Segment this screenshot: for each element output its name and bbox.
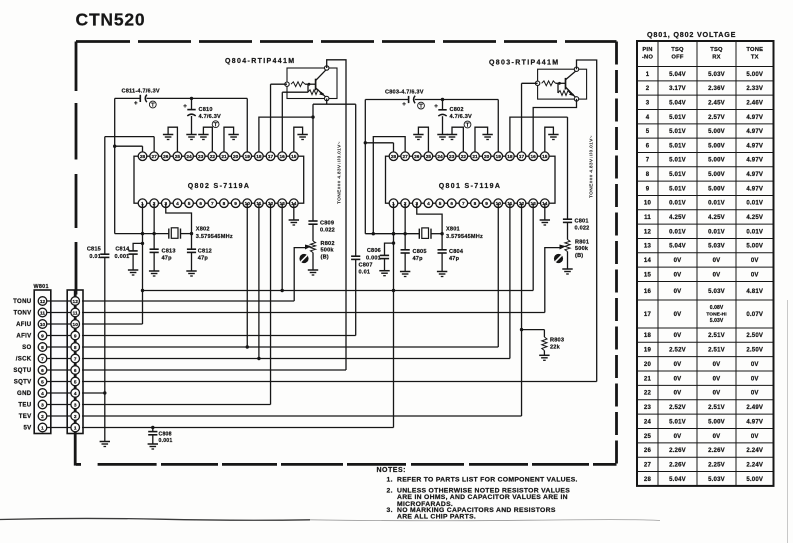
svg-text:0.022: 0.022 xyxy=(320,228,335,234)
wire: crystal net under Q801 xyxy=(365,232,444,235)
svg-text:+: + xyxy=(183,103,187,110)
svg-text:17: 17 xyxy=(268,154,274,160)
svg-text:4: 4 xyxy=(74,391,77,397)
svg-text:5.03V: 5.03V xyxy=(708,72,725,78)
svg-text:C806: C806 xyxy=(367,248,381,254)
svg-text:0V: 0V xyxy=(674,362,682,368)
svg-text:TX: TX xyxy=(751,55,759,61)
capacitor C804 47p on pin-3 net with ground xyxy=(417,203,464,276)
capacitor C813 47p on pin-2 column with ground xyxy=(149,203,176,276)
svg-text:5.03V: 5.03V xyxy=(708,244,725,250)
capacitor C809 0.022 xyxy=(308,104,335,233)
svg-text:9: 9 xyxy=(74,333,77,339)
svg-text:21: 21 xyxy=(644,376,652,382)
svg-text:3.: 3. xyxy=(387,507,393,514)
svg-text:10: 10 xyxy=(73,322,79,328)
svg-text:5.03V: 5.03V xyxy=(710,318,724,324)
svg-text:28: 28 xyxy=(644,477,652,483)
svg-text:AFIU: AFIU xyxy=(16,321,32,328)
svg-text:5.01V: 5.01V xyxy=(669,143,686,149)
svg-text:0V: 0V xyxy=(751,434,759,440)
wire: C815 net to pin 27 xyxy=(105,137,154,152)
svg-text:5.01V: 5.01V xyxy=(669,186,686,192)
wire: Q801 pin 11 column + /SCK row xyxy=(82,203,510,358)
wire: C803 net to pin 19 xyxy=(365,100,498,153)
svg-text:C805: C805 xyxy=(413,249,427,255)
svg-text:0.01V: 0.01V xyxy=(669,229,686,235)
ground (R802) xyxy=(308,270,318,275)
svg-text:Q801 S-7119A: Q801 S-7119A xyxy=(439,183,502,190)
svg-text:0V: 0V xyxy=(751,258,759,264)
svg-text:11: 11 xyxy=(644,215,651,221)
wire: TONU row 12 to R802 riser xyxy=(82,300,294,302)
svg-text:16: 16 xyxy=(280,154,286,160)
svg-text:5.01V: 5.01V xyxy=(669,158,686,164)
svg-text:9: 9 xyxy=(646,186,650,192)
IC U-Q801 S-7119A body xyxy=(386,156,556,203)
svg-text:2.50V: 2.50V xyxy=(746,348,763,354)
capacitor C810 4.7/6.3V (polarized) with ground xyxy=(183,97,221,140)
wire: GND row 4 to ground rail xyxy=(82,392,105,394)
wire: Q802 pin 1 column (Vdd) down to AFIU row xyxy=(141,203,144,324)
svg-text:TONE-HI: TONE-HI xyxy=(706,311,727,317)
svg-text:0V: 0V xyxy=(674,258,682,264)
svg-text:C801: C801 xyxy=(575,219,589,225)
svg-text:2.24V: 2.24V xyxy=(746,462,763,468)
crystal X801 3.579545MHz xyxy=(419,227,483,240)
svg-text:2.24V: 2.24V xyxy=(746,448,763,454)
svg-text:5.01V: 5.01V xyxy=(669,172,686,178)
wire: C803 riser to crystal line, jog to pin 28 xyxy=(364,100,394,234)
transistor Q804 RTIP441M (digital transistor block) xyxy=(225,58,337,101)
svg-text:C815: C815 xyxy=(87,247,101,253)
svg-text:5.04V: 5.04V xyxy=(669,244,686,250)
wire: Q802 pin 11 column to /SCK row xyxy=(257,203,260,360)
svg-text:0.01: 0.01 xyxy=(359,270,371,276)
connector W801 xyxy=(34,284,84,434)
svg-text:7: 7 xyxy=(41,356,44,362)
svg-text:6: 6 xyxy=(199,201,202,207)
svg-text:20: 20 xyxy=(233,154,239,160)
svg-text:25: 25 xyxy=(175,154,181,160)
wire: C811 riser to crystal line, jog to pin 28 xyxy=(113,98,143,233)
resistor R801 500k (B) potentiometer xyxy=(565,222,589,268)
transistor Q803 RTIP441M (digital transistor block) xyxy=(489,60,587,102)
svg-text:11: 11 xyxy=(40,310,45,316)
svg-text:0V: 0V xyxy=(713,272,721,278)
wire: Q801 pin 10 column + SO row xyxy=(82,203,498,347)
svg-text:AFIV: AFIV xyxy=(16,333,32,340)
wire+ground pin 15 Q801 xyxy=(545,127,559,152)
svg-text:27: 27 xyxy=(402,154,408,160)
svg-text:2.52V: 2.52V xyxy=(669,405,686,411)
svg-text:+: + xyxy=(134,100,138,107)
svg-text:4.97V: 4.97V xyxy=(746,186,763,192)
svg-text:4: 4 xyxy=(646,115,650,121)
svg-text:2.52V: 2.52V xyxy=(669,348,686,354)
svg-text:ARE ALL CHIP PARTS.: ARE ALL CHIP PARTS. xyxy=(397,514,476,521)
svg-text:15: 15 xyxy=(542,154,548,160)
svg-text:C803-4.7/6.3V: C803-4.7/6.3V xyxy=(385,90,424,96)
svg-text:TONE: TONE xyxy=(746,47,763,53)
svg-text:5V: 5V xyxy=(23,425,32,432)
svg-text:4.97V: 4.97V xyxy=(746,143,763,149)
wire+ground pin 21 Q801 xyxy=(475,127,493,152)
wire: TONV row 11 to R801 riser xyxy=(82,312,545,314)
svg-text:2.45V: 2.45V xyxy=(708,100,725,106)
svg-text:5.00V: 5.00V xyxy=(708,186,725,192)
svg-text:TONU: TONU xyxy=(13,298,32,305)
svg-text:PIN: PIN xyxy=(642,47,652,53)
svg-text:R803: R803 xyxy=(550,338,564,344)
ground (R801) xyxy=(562,268,572,270)
svg-text:26: 26 xyxy=(644,448,652,454)
svg-text:0V: 0V xyxy=(674,272,682,278)
svg-text:8: 8 xyxy=(41,345,44,351)
svg-text:47p: 47p xyxy=(162,256,173,262)
svg-text:6: 6 xyxy=(74,368,77,374)
svg-text:5: 5 xyxy=(646,129,650,135)
svg-text:22: 22 xyxy=(644,391,652,397)
capacitor C807 0.01 (series, on SQTU riser) xyxy=(351,256,373,275)
ground pin 14 Q801 xyxy=(540,203,550,225)
capacitor C802 4.7/6.3V (polarized) with ground xyxy=(434,98,472,140)
svg-text:SQTU: SQTU xyxy=(13,367,31,374)
svg-text:500k: 500k xyxy=(321,248,335,254)
voltage table Q801,Q802 xyxy=(637,30,774,486)
svg-text:0.01V: 0.01V xyxy=(746,229,763,235)
svg-text:0V: 0V xyxy=(751,362,759,368)
wire: C811 net to pin 19 xyxy=(115,98,248,152)
svg-text:(B): (B) xyxy=(321,255,329,261)
svg-text:C809: C809 xyxy=(320,221,334,227)
svg-text:47p: 47p xyxy=(413,256,424,262)
svg-text:1.: 1. xyxy=(387,476,393,483)
svg-text:8: 8 xyxy=(74,345,77,351)
wire+ground pin 15 xyxy=(294,127,308,152)
svg-text:7: 7 xyxy=(646,158,650,164)
test point T on C811 xyxy=(149,101,156,108)
svg-text:0V: 0V xyxy=(713,391,721,397)
svg-text:0.001: 0.001 xyxy=(366,256,381,262)
svg-text:1: 1 xyxy=(41,425,44,431)
svg-text:5: 5 xyxy=(188,201,191,207)
svg-text:Q803-RTIP441M: Q803-RTIP441M xyxy=(489,60,559,67)
svg-text:18: 18 xyxy=(507,154,513,160)
svg-text:C807: C807 xyxy=(359,263,373,269)
ground pin 14 Q802 xyxy=(289,203,299,225)
wire: C815 vertical rail down to ground / GND row xyxy=(103,137,106,442)
capacitor C814 0.001 with ground xyxy=(115,242,145,275)
svg-text:Q804-RTIP441M: Q804-RTIP441M xyxy=(225,58,295,65)
svg-text:2.51V: 2.51V xyxy=(708,333,725,339)
svg-text:24: 24 xyxy=(644,419,652,425)
svg-text:17: 17 xyxy=(644,312,652,318)
svg-text:27: 27 xyxy=(644,462,652,468)
svg-text:7: 7 xyxy=(211,201,214,207)
svg-text:TSQ: TSQ xyxy=(671,47,684,53)
svg-text:5.00V: 5.00V xyxy=(746,477,763,483)
svg-text:0.07V: 0.07V xyxy=(746,312,763,318)
svg-text:9: 9 xyxy=(234,201,237,207)
svg-text:20: 20 xyxy=(644,362,652,368)
svg-text:-NO: -NO xyxy=(642,55,654,61)
svg-text:21: 21 xyxy=(221,154,227,160)
R802 wiper arrow from TONU riser xyxy=(294,245,311,302)
test point T on C810 xyxy=(212,121,219,128)
svg-text:4.97V: 4.97V xyxy=(746,419,763,425)
svg-text:3.579545MHz: 3.579545MHz xyxy=(196,234,233,240)
svg-text:47p: 47p xyxy=(449,256,460,262)
svg-text:17: 17 xyxy=(519,154,525,160)
wire: Q804 collector to SQTU riser (row 6) xyxy=(327,60,346,370)
svg-text:14: 14 xyxy=(644,258,652,264)
resistor R802 500k (B) potentiometer xyxy=(310,224,334,269)
svg-text:2.49V: 2.49V xyxy=(746,405,763,411)
svg-text:5.00V: 5.00V xyxy=(708,129,725,135)
svg-text:5.00V: 5.00V xyxy=(746,72,763,78)
svg-text:0V: 0V xyxy=(751,376,759,382)
notes text block xyxy=(377,467,578,521)
svg-text:28: 28 xyxy=(140,154,146,160)
svg-text:3.579545MHz: 3.579545MHz xyxy=(446,234,483,240)
wire: Q801 pin 1 column (Vdd) down to 5V row xyxy=(392,203,395,427)
wire: Q802 pin 13 column to bus xyxy=(280,203,283,292)
svg-text:4.97V: 4.97V xyxy=(746,129,763,135)
svg-text:4.25V: 4.25V xyxy=(669,215,686,221)
svg-text:5: 5 xyxy=(41,379,44,385)
svg-text:10: 10 xyxy=(40,322,46,328)
svg-text:4: 4 xyxy=(427,201,430,207)
svg-text:TONE### 4.83V↓I/0.01V~: TONE### 4.83V↓I/0.01V~ xyxy=(589,135,595,198)
svg-text:2.57V: 2.57V xyxy=(708,115,725,121)
svg-text:CTN520: CTN520 xyxy=(76,10,146,30)
svg-text:0V: 0V xyxy=(713,376,721,382)
svg-text:26: 26 xyxy=(163,154,169,160)
capacitor C801 0.022 xyxy=(563,117,590,231)
IC Q802 top pins 28-15 xyxy=(138,152,298,161)
wire: Q802 pin 12 column to TEU row xyxy=(270,203,272,404)
wire: pin 18 to C801 xyxy=(510,117,568,152)
adjuster symbol (screwdriver) R802 xyxy=(299,254,308,263)
svg-text:0V: 0V xyxy=(751,272,759,278)
svg-text:4.97V: 4.97V xyxy=(746,158,763,164)
svg-text:5: 5 xyxy=(439,201,442,207)
svg-text:TSQ: TSQ xyxy=(710,47,723,53)
svg-text:11: 11 xyxy=(73,310,78,316)
svg-text:0.001: 0.001 xyxy=(159,438,173,444)
board outline dashed border xyxy=(76,40,130,43)
svg-text:28: 28 xyxy=(391,154,397,160)
svg-text:C814: C814 xyxy=(115,247,130,253)
svg-text:2.51V: 2.51V xyxy=(708,348,725,354)
svg-text:2.: 2. xyxy=(387,487,393,494)
svg-text:/SCK: /SCK xyxy=(16,356,32,363)
svg-text:2: 2 xyxy=(41,414,44,420)
svg-text:0V: 0V xyxy=(674,391,682,397)
svg-text:1: 1 xyxy=(646,72,650,78)
svg-text:15: 15 xyxy=(291,154,297,160)
wire: Q801 pin 12 column to TEV row xyxy=(82,203,523,416)
svg-text:5.04V: 5.04V xyxy=(669,72,686,78)
svg-text:7: 7 xyxy=(462,201,465,207)
svg-text:5.00V: 5.00V xyxy=(708,172,725,178)
svg-text:4.81V: 4.81V xyxy=(746,289,763,295)
svg-text:GND: GND xyxy=(17,390,32,397)
svg-text:5: 5 xyxy=(74,379,77,385)
svg-text:500k: 500k xyxy=(575,246,589,252)
svg-text:20: 20 xyxy=(484,154,490,160)
svg-text:2.26V: 2.26V xyxy=(669,462,686,468)
svg-text:5.01V: 5.01V xyxy=(669,419,686,425)
svg-text:REFER TO PARTS LIST FOR COMPON: REFER TO PARTS LIST FOR COMPONENT VALUES… xyxy=(397,476,578,483)
svg-text:8: 8 xyxy=(474,201,477,207)
svg-text:2.33V: 2.33V xyxy=(746,86,763,92)
svg-text:4: 4 xyxy=(176,201,179,207)
svg-text:22: 22 xyxy=(210,154,216,160)
svg-text:C812: C812 xyxy=(198,249,212,255)
capacitor C805 47p on pin-2 column with ground xyxy=(400,203,427,276)
wire+ground pin 25 Q801 xyxy=(413,127,428,152)
wire+ground pin 21 xyxy=(224,127,239,152)
svg-text:C804: C804 xyxy=(449,249,464,255)
capacitor C811 4.7/6.3V (polarized) xyxy=(122,89,160,108)
svg-text:19: 19 xyxy=(644,348,652,354)
IC Q801 top pins 28-15 xyxy=(389,152,549,161)
svg-text:1: 1 xyxy=(74,425,77,431)
svg-text:C802: C802 xyxy=(450,107,464,113)
svg-text:0V: 0V xyxy=(674,289,682,295)
svg-text:4: 4 xyxy=(41,391,44,397)
svg-text:5.00V: 5.00V xyxy=(708,158,725,164)
svg-text:Q801, Q802 VOLTAGE: Q801, Q802 VOLTAGE xyxy=(647,30,736,39)
svg-text:23: 23 xyxy=(198,154,204,160)
svg-text:24: 24 xyxy=(186,154,192,160)
svg-text:TONE### 4.83V↓I/0.01V~: TONE### 4.83V↓I/0.01V~ xyxy=(337,141,343,204)
svg-text:TEV: TEV xyxy=(19,413,32,420)
svg-text:5.04V: 5.04V xyxy=(669,477,686,483)
svg-text:18: 18 xyxy=(644,333,652,339)
wire: long bus Q802 pin1 to Q801 pin13 xyxy=(143,203,534,292)
svg-text:25: 25 xyxy=(644,434,652,440)
svg-text:4.7/6.3V: 4.7/6.3V xyxy=(199,114,222,120)
svg-text:5.03V: 5.03V xyxy=(708,289,725,295)
wire: crystal net under Q802 xyxy=(115,232,194,235)
svg-text:X802: X802 xyxy=(196,227,210,233)
svg-text:18: 18 xyxy=(256,154,262,160)
wire: AFIV riser row9 through C807 to Q804 emitter branch xyxy=(355,104,357,335)
svg-text:4.25V: 4.25V xyxy=(746,215,763,221)
capacitor C803 4.7/6.3V (polarized) xyxy=(385,90,424,109)
svg-text:0V: 0V xyxy=(713,258,721,264)
wire+ground pin 22 Q801 xyxy=(447,127,464,152)
svg-text:0V: 0V xyxy=(751,391,759,397)
svg-text:3: 3 xyxy=(41,402,44,408)
svg-text:C811-4.7/6.3V: C811-4.7/6.3V xyxy=(122,89,160,95)
ground (C815/GND rail) xyxy=(100,441,110,443)
svg-text:5.00V: 5.00V xyxy=(708,419,725,425)
svg-text:0.01V: 0.01V xyxy=(669,201,686,207)
capacitor C815 0.01 xyxy=(87,247,110,261)
svg-text:4.25V: 4.25V xyxy=(708,215,725,221)
wire: Q803 emitter node to pin 16 xyxy=(533,99,576,152)
svg-text:3: 3 xyxy=(646,100,650,106)
adjuster symbol (screwdriver) R801 xyxy=(554,254,563,263)
svg-text:5.04V: 5.04V xyxy=(669,100,686,106)
svg-text:0.001: 0.001 xyxy=(115,254,130,260)
svg-text:0V: 0V xyxy=(674,434,682,440)
svg-text:4.97V: 4.97V xyxy=(746,172,763,178)
wire: Q803 collector to SQTV riser (row 5) xyxy=(577,60,597,382)
svg-text:X801: X801 xyxy=(446,227,460,233)
wire: AFIU row 10 to Q802 pin1 column xyxy=(82,323,143,325)
wire: 5V row 1 to Q801 pin1 column xyxy=(82,426,394,429)
svg-text:Q802 S-7119A: Q802 S-7119A xyxy=(188,183,251,190)
wire: Q804 base input to pin 17 xyxy=(271,84,287,152)
svg-text:2.36V: 2.36V xyxy=(708,86,725,92)
svg-text:2.26V: 2.26V xyxy=(708,448,725,454)
svg-text:12: 12 xyxy=(40,299,46,305)
resistor R803 22k with ground xyxy=(522,330,565,361)
svg-text:19: 19 xyxy=(245,154,251,160)
svg-text:0.01V: 0.01V xyxy=(708,201,725,207)
svg-text:6: 6 xyxy=(646,143,650,149)
svg-text:C808: C808 xyxy=(159,432,172,438)
svg-text:2.26V: 2.26V xyxy=(669,448,686,454)
svg-text:8: 8 xyxy=(646,172,650,178)
capacitor C806 0.001 with ground xyxy=(366,241,395,275)
svg-text:8: 8 xyxy=(223,201,226,207)
svg-text:4.97V: 4.97V xyxy=(746,115,763,121)
svg-text:2.50V: 2.50V xyxy=(746,333,763,339)
svg-text:(B): (B) xyxy=(575,253,583,259)
svg-text:SQTV: SQTV xyxy=(14,379,32,386)
svg-text:6: 6 xyxy=(41,368,44,374)
svg-text:C813: C813 xyxy=(162,249,176,255)
capacitor C808 0.001 with ground xyxy=(148,428,173,450)
wire: Q804 emitter node down, branches xyxy=(313,99,356,105)
svg-text:+: + xyxy=(434,103,438,110)
svg-text:R801: R801 xyxy=(575,240,589,246)
svg-text:26: 26 xyxy=(414,154,420,160)
wire: TEU row 3 to Q802 pin12 column xyxy=(82,404,271,406)
svg-text:15: 15 xyxy=(644,272,652,278)
svg-text:16: 16 xyxy=(644,289,652,295)
svg-text:2: 2 xyxy=(74,414,77,420)
svg-text:0.022: 0.022 xyxy=(575,226,590,232)
op-amp / IC U-Q802 S-7119A body xyxy=(134,156,304,203)
wire: pin 18 to C809 node xyxy=(259,115,315,152)
svg-text:5.00V: 5.00V xyxy=(708,143,725,149)
svg-text:6: 6 xyxy=(450,201,453,207)
svg-text:16: 16 xyxy=(531,154,537,160)
wire: AFIV row 9 to C807 riser xyxy=(82,335,356,337)
IC Q802 bottom pins 1-14 xyxy=(138,199,298,208)
svg-text:2.46V: 2.46V xyxy=(746,100,763,106)
svg-text:0.01V: 0.01V xyxy=(708,229,725,235)
svg-text:TEU: TEU xyxy=(18,402,31,409)
svg-text:25: 25 xyxy=(426,154,432,160)
capacitor C812 47p on pin-3 net with ground xyxy=(166,203,212,276)
wire: SQTV row 5 to Q803 riser xyxy=(82,381,597,383)
svg-text:5.00V: 5.00V xyxy=(746,244,763,250)
crystal X802 3.579545MHz xyxy=(169,227,233,240)
svg-text:2: 2 xyxy=(646,86,650,92)
svg-text:TONV: TONV xyxy=(13,310,32,317)
svg-text:W801: W801 xyxy=(34,284,49,290)
svg-text:0.01: 0.01 xyxy=(89,254,101,260)
svg-text:R802: R802 xyxy=(321,241,335,247)
